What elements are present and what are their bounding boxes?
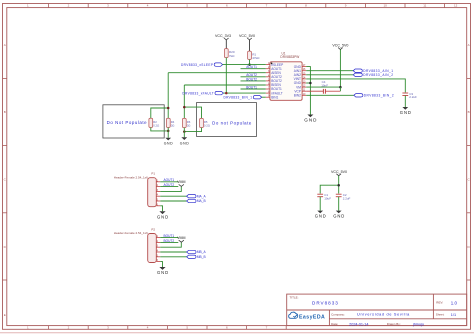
capacitor C1 10uF xyxy=(317,193,331,200)
wire R6 to ground xyxy=(183,128,185,138)
svg-text:0.2Ω: 0.2Ω xyxy=(204,124,210,128)
ground (U1) xyxy=(304,115,317,123)
U1 left pin numbers xyxy=(268,62,270,98)
U1 right pin stubs xyxy=(302,67,306,96)
wire P1.5 xyxy=(160,200,186,202)
net port MB_B xyxy=(187,255,206,259)
wire AISEN vertical xyxy=(167,73,169,119)
wire C2 to ground xyxy=(338,197,340,211)
svg-text:GND: GND xyxy=(315,214,327,219)
wire BISEN tap to R5 xyxy=(184,107,201,118)
P1 pin stubs xyxy=(156,182,160,206)
svg-text:Company:: Company: xyxy=(331,312,345,316)
resistor R20 7k pull-up xyxy=(224,49,235,58)
U1 left pin names xyxy=(271,63,283,100)
svg-text:AOUT2: AOUT2 xyxy=(164,183,175,187)
svg-text:Header-Female 2.54_1x6: Header-Female 2.54_1x6 xyxy=(114,175,148,179)
svg-text:VCC_3V3: VCC_3V3 xyxy=(215,34,231,38)
wire P2.5 xyxy=(160,256,186,258)
wire P1.1 AOUT1 xyxy=(160,181,178,183)
wire R20 to nFAULT net xyxy=(225,58,227,94)
wire R1 to nSLEEP net xyxy=(249,60,251,65)
svg-text:Sheet:: Sheet: xyxy=(436,313,445,317)
wire BISEN vertical xyxy=(183,85,185,118)
wire P2.2 BOUT2 xyxy=(160,241,178,243)
junction GND13/GND17 xyxy=(309,82,312,85)
svg-text:B: B xyxy=(468,110,470,114)
junction R20/nFAULT xyxy=(225,92,228,95)
svg-text:Date:: Date: xyxy=(331,322,338,326)
svg-text:2.2uF: 2.2uF xyxy=(409,95,417,99)
wire R2 bottom xyxy=(151,128,168,131)
svg-text:DRV8833: DRV8833 xyxy=(312,300,339,305)
ground (BISEN sense) xyxy=(180,137,190,145)
svg-text:1.0: 1.0 xyxy=(451,301,458,306)
svg-text:BOUT1: BOUT1 xyxy=(164,234,175,238)
U1 left pin stubs xyxy=(266,65,270,98)
svg-text:DRV8833PW: DRV8833PW xyxy=(280,55,299,59)
wire AISEN horizontal xyxy=(168,72,266,74)
svg-text:VCC_5V0: VCC_5V0 xyxy=(332,44,348,48)
wire P2.6 to ground xyxy=(160,262,162,267)
net port MB_A xyxy=(187,250,207,254)
capacitor C4 10nF (VCP-VM) xyxy=(306,80,340,94)
junction R6/R5 bottom xyxy=(183,130,186,133)
svg-text:DRV8833_AIN_2: DRV8833_AIN_2 xyxy=(363,73,393,77)
resistor R1 47k pull-up xyxy=(248,51,261,60)
ground (AISEN sense) xyxy=(164,138,174,146)
ground (P1) xyxy=(157,211,169,219)
svg-text:GND: GND xyxy=(157,214,169,219)
P1 pin numbers xyxy=(157,179,159,206)
svg-text:11: 11 xyxy=(423,4,426,8)
wire P1.3 to VMM xyxy=(160,187,181,192)
DNP box left xyxy=(103,105,164,138)
svg-text:Drawn By:: Drawn By: xyxy=(387,322,401,326)
wire nFAULT xyxy=(223,92,265,94)
junction R2/R4 bottom xyxy=(167,130,170,133)
svg-text:A: A xyxy=(4,43,6,47)
P2 pin numbers xyxy=(157,235,159,262)
power flag VCC_5V0 (VM rail) xyxy=(332,44,348,88)
svg-text:VCC_5V0: VCC_5V0 xyxy=(239,34,255,38)
DNP box right xyxy=(197,103,257,137)
ground (C1) xyxy=(315,211,327,219)
net port DRV8833_AIN_2 xyxy=(353,73,393,77)
wire AOUT1 xyxy=(241,68,266,70)
svg-text:GND: GND xyxy=(164,142,174,146)
svg-text:REV:: REV: xyxy=(436,301,443,305)
svg-text:GND: GND xyxy=(400,110,412,115)
svg-text:0Ω: 0Ω xyxy=(171,123,175,127)
resistor R6 0ohm xyxy=(182,118,190,127)
resistor R4 0ohm xyxy=(166,118,174,127)
svg-text:BIN2: BIN2 xyxy=(294,94,301,98)
wire AIN1 xyxy=(306,70,353,72)
svg-text:10uF: 10uF xyxy=(324,196,331,200)
net port MA_A xyxy=(187,194,207,198)
svg-text:Header-Female 2.54_1x6: Header-Female 2.54_1x6 xyxy=(114,231,148,235)
wire VM xyxy=(306,86,340,88)
svg-text:BOUT2: BOUT2 xyxy=(164,239,175,243)
P2 pin stubs xyxy=(156,238,160,262)
wire C4 to VM xyxy=(339,87,341,91)
wire BOUT2 xyxy=(241,80,266,82)
svg-text:E: E xyxy=(4,313,6,317)
power flag VCC_5V0 (top) xyxy=(239,34,255,51)
resistor R2 0.2ohm xyxy=(149,118,159,127)
svg-text:GND: GND xyxy=(333,214,345,219)
connector P2 Header-Female 2.54_1x6 xyxy=(114,227,157,262)
wire P1.4 xyxy=(160,195,186,197)
wire GND pad pin17 xyxy=(306,67,310,115)
net port MA_B xyxy=(187,199,206,203)
svg-text:VMM: VMM xyxy=(177,180,185,184)
svg-text:TITLE:: TITLE: xyxy=(290,295,299,299)
svg-text:GND: GND xyxy=(157,270,169,275)
svg-text:2.2uF: 2.2uF xyxy=(343,196,351,200)
svg-text:EasyEDA: EasyEDA xyxy=(299,315,325,321)
ground (C2) xyxy=(333,211,345,219)
wire P1.6 to ground xyxy=(160,206,162,211)
svg-text:AOUT1: AOUT1 xyxy=(164,178,175,182)
net port DRV8833_BIN_1 xyxy=(223,95,261,99)
wire C1 to ground xyxy=(319,197,321,211)
net port DRV8833_xFAULT xyxy=(182,91,223,95)
svg-text:jhinojo: jhinojo xyxy=(412,323,424,327)
svg-text:GND: GND xyxy=(180,141,190,145)
wire BOUT1 xyxy=(241,88,266,90)
wire BIN2 xyxy=(306,94,354,96)
net port DRV8833_BIN_2 xyxy=(354,94,394,98)
wire R5 bottom xyxy=(184,128,201,132)
U1 right pin numbers xyxy=(303,64,306,96)
svg-text:12: 12 xyxy=(454,4,458,8)
svg-text:10: 10 xyxy=(384,4,388,8)
svg-text:Do not Populate: Do not Populate xyxy=(212,120,252,125)
svg-text:BIN1: BIN1 xyxy=(271,95,278,99)
U1 right pin names xyxy=(294,65,302,98)
wire P2.3 to VMM xyxy=(160,242,181,247)
svg-text:MB_A: MB_A xyxy=(197,250,207,254)
svg-text:MA_A: MA_A xyxy=(197,194,207,198)
junction BISEN/R5 xyxy=(183,106,186,109)
power flag VMM (P1) xyxy=(177,180,185,186)
wire P2.4 xyxy=(160,251,186,253)
wire R4 to ground xyxy=(167,128,169,138)
EasyEDA logo xyxy=(289,312,326,321)
svg-text:7kΩ: 7kΩ xyxy=(229,54,235,58)
power flag VMM (P2) xyxy=(177,236,185,242)
wire AOUT2 xyxy=(241,76,266,78)
svg-text:VCC_5V0: VCC_5V0 xyxy=(331,170,347,174)
junction VM/VCC xyxy=(339,86,342,89)
svg-text:VMM: VMM xyxy=(177,236,185,240)
svg-text:GND: GND xyxy=(304,117,317,122)
wire AIN2 xyxy=(306,74,353,76)
svg-text:A: A xyxy=(468,43,470,47)
ground (P2) xyxy=(157,267,169,275)
wire nSLEEP xyxy=(223,64,266,66)
svg-text:Universidad de Sevilla: Universidad de Sevilla xyxy=(357,313,410,317)
svg-text:MA_B: MA_B xyxy=(197,199,206,203)
wire BISEN horizontal xyxy=(184,84,265,86)
net port DRV8833_AIN_1 xyxy=(353,69,393,73)
ground (C3) xyxy=(400,107,412,115)
capacitor C2 2.2uF xyxy=(336,193,351,200)
power flag VCC_3V3 xyxy=(215,34,231,48)
svg-text:P1: P1 xyxy=(151,172,155,176)
svg-text:DRV8833_BIN_1: DRV8833_BIN_1 xyxy=(223,95,252,99)
wire P1.2 AOUT2 xyxy=(160,186,178,188)
svg-text:2024-01-14: 2024-01-14 xyxy=(349,322,368,326)
bottom sheet edge line xyxy=(0,332,474,334)
connector P1 Header-Female 2.54_1x6 xyxy=(114,172,157,207)
svg-text:0Ω: 0Ω xyxy=(187,124,191,128)
resistor R5 0.2ohm xyxy=(200,118,210,127)
svg-text:B: B xyxy=(4,110,6,114)
junction R1/nSLEEP xyxy=(248,63,251,66)
wire P2.1 BOUT1 xyxy=(160,237,178,239)
svg-text:P2: P2 xyxy=(151,227,155,231)
svg-text:47kΩ: 47kΩ xyxy=(252,56,260,60)
TITLEBLOCK xyxy=(287,294,467,326)
wire VINT to C3 xyxy=(306,79,405,93)
power flag VCC_5V0 (decoupling) xyxy=(331,170,347,194)
svg-text:10nF: 10nF xyxy=(321,84,328,88)
svg-text:DRV8833_xSLEEP: DRV8833_xSLEEP xyxy=(181,63,213,67)
wire BIN1 xyxy=(262,96,266,98)
net port DRV8833_xSLEEP xyxy=(181,63,223,67)
capacitor C3 2.2uF xyxy=(402,92,417,99)
svg-text:MB_B: MB_B xyxy=(197,255,206,259)
wire AISEN tap to R2 xyxy=(151,108,168,118)
svg-text:DRV8833_BIN_2: DRV8833_BIN_2 xyxy=(364,94,394,98)
svg-text:DRV8833_xFAULT: DRV8833_xFAULT xyxy=(182,91,214,95)
wire to C1 xyxy=(320,185,339,193)
wire GND pin13 xyxy=(306,82,310,84)
svg-text:Do Not Populate: Do Not Populate xyxy=(107,120,147,125)
junction VCC/C1 xyxy=(337,184,340,187)
junction AISEN/R2 xyxy=(167,107,170,110)
op-amp U1 DRV8833PW body xyxy=(270,52,302,101)
svg-text:1/1: 1/1 xyxy=(451,313,456,317)
svg-text:0.2Ω: 0.2Ω xyxy=(153,123,159,127)
wire C3 to ground xyxy=(404,96,406,108)
